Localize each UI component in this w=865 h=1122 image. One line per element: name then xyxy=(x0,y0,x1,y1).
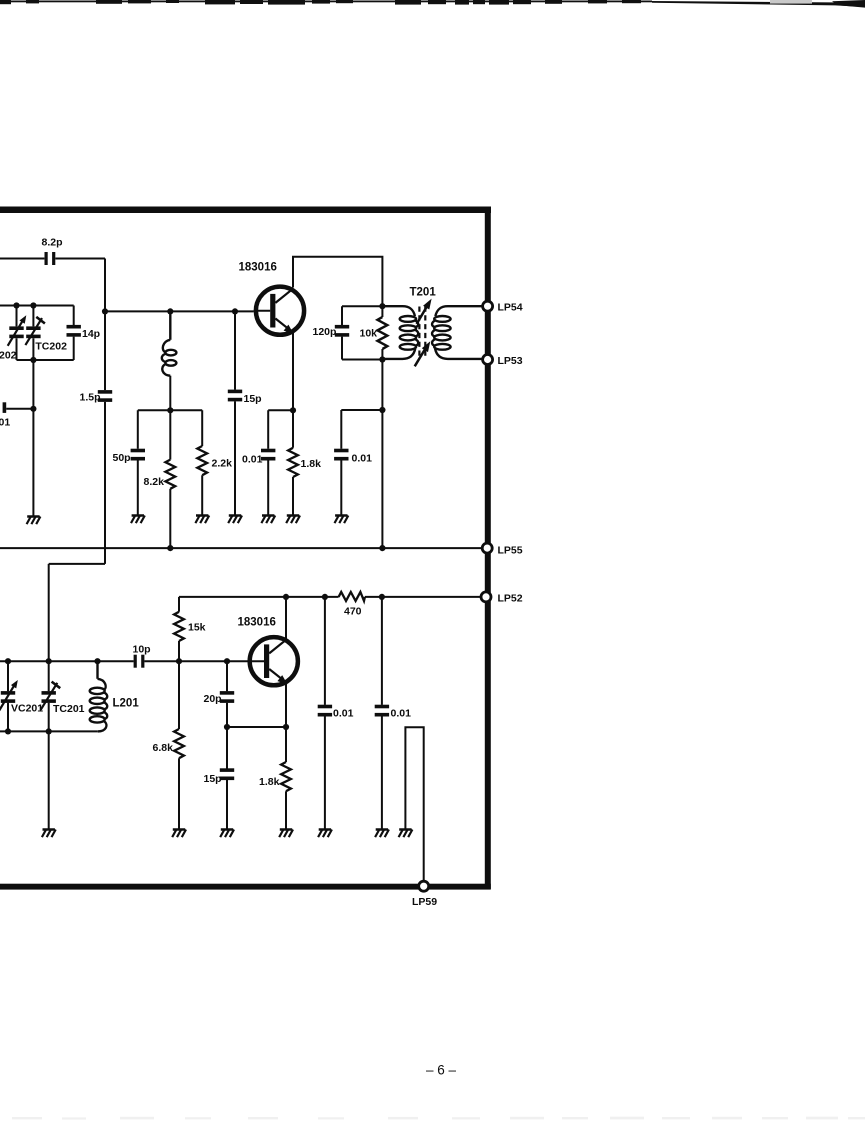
svg-text:1.8k: 1.8k xyxy=(301,458,322,470)
svg-text:120p: 120p xyxy=(313,326,337,338)
svg-text:10k: 10k xyxy=(360,328,378,340)
svg-text:1.5p: 1.5p xyxy=(80,392,101,404)
svg-text:0.01: 0.01 xyxy=(333,708,354,720)
svg-text:8.2k: 8.2k xyxy=(144,476,165,488)
svg-text:LP52: LP52 xyxy=(498,593,523,605)
svg-text:202: 202 xyxy=(0,350,17,362)
svg-text:20p: 20p xyxy=(204,693,222,705)
svg-text:1.8k: 1.8k xyxy=(259,776,280,788)
svg-text:T201: T201 xyxy=(410,287,437,299)
svg-text:0.01: 0.01 xyxy=(242,453,263,465)
svg-text:0.01: 0.01 xyxy=(391,708,412,720)
svg-text:LP59: LP59 xyxy=(412,896,437,908)
svg-text:15k: 15k xyxy=(188,622,206,634)
svg-text:L201: L201 xyxy=(113,698,140,710)
svg-text:8.2p: 8.2p xyxy=(42,237,63,249)
svg-text:183016: 183016 xyxy=(238,617,276,629)
svg-text:LP54: LP54 xyxy=(498,302,523,314)
svg-text:50p: 50p xyxy=(113,452,131,464)
svg-text:VC201: VC201 xyxy=(11,703,43,715)
svg-text:470: 470 xyxy=(344,606,362,618)
svg-text:LP53: LP53 xyxy=(498,355,523,367)
svg-text:TC201: TC201 xyxy=(53,703,85,715)
svg-text:183016: 183016 xyxy=(239,262,277,274)
svg-text:10p: 10p xyxy=(133,644,151,656)
svg-text:01: 01 xyxy=(0,417,10,429)
svg-text:15p: 15p xyxy=(204,773,222,785)
svg-text:TC202: TC202 xyxy=(35,341,67,353)
svg-text:15p: 15p xyxy=(244,393,262,405)
svg-text:14p: 14p xyxy=(82,328,100,340)
svg-text:– 6 –: – 6 – xyxy=(426,1063,457,1078)
svg-text:6.8k: 6.8k xyxy=(153,742,174,754)
svg-text:0.01: 0.01 xyxy=(352,453,373,465)
svg-text:LP55: LP55 xyxy=(498,545,523,557)
svg-text:2.2k: 2.2k xyxy=(212,458,233,470)
